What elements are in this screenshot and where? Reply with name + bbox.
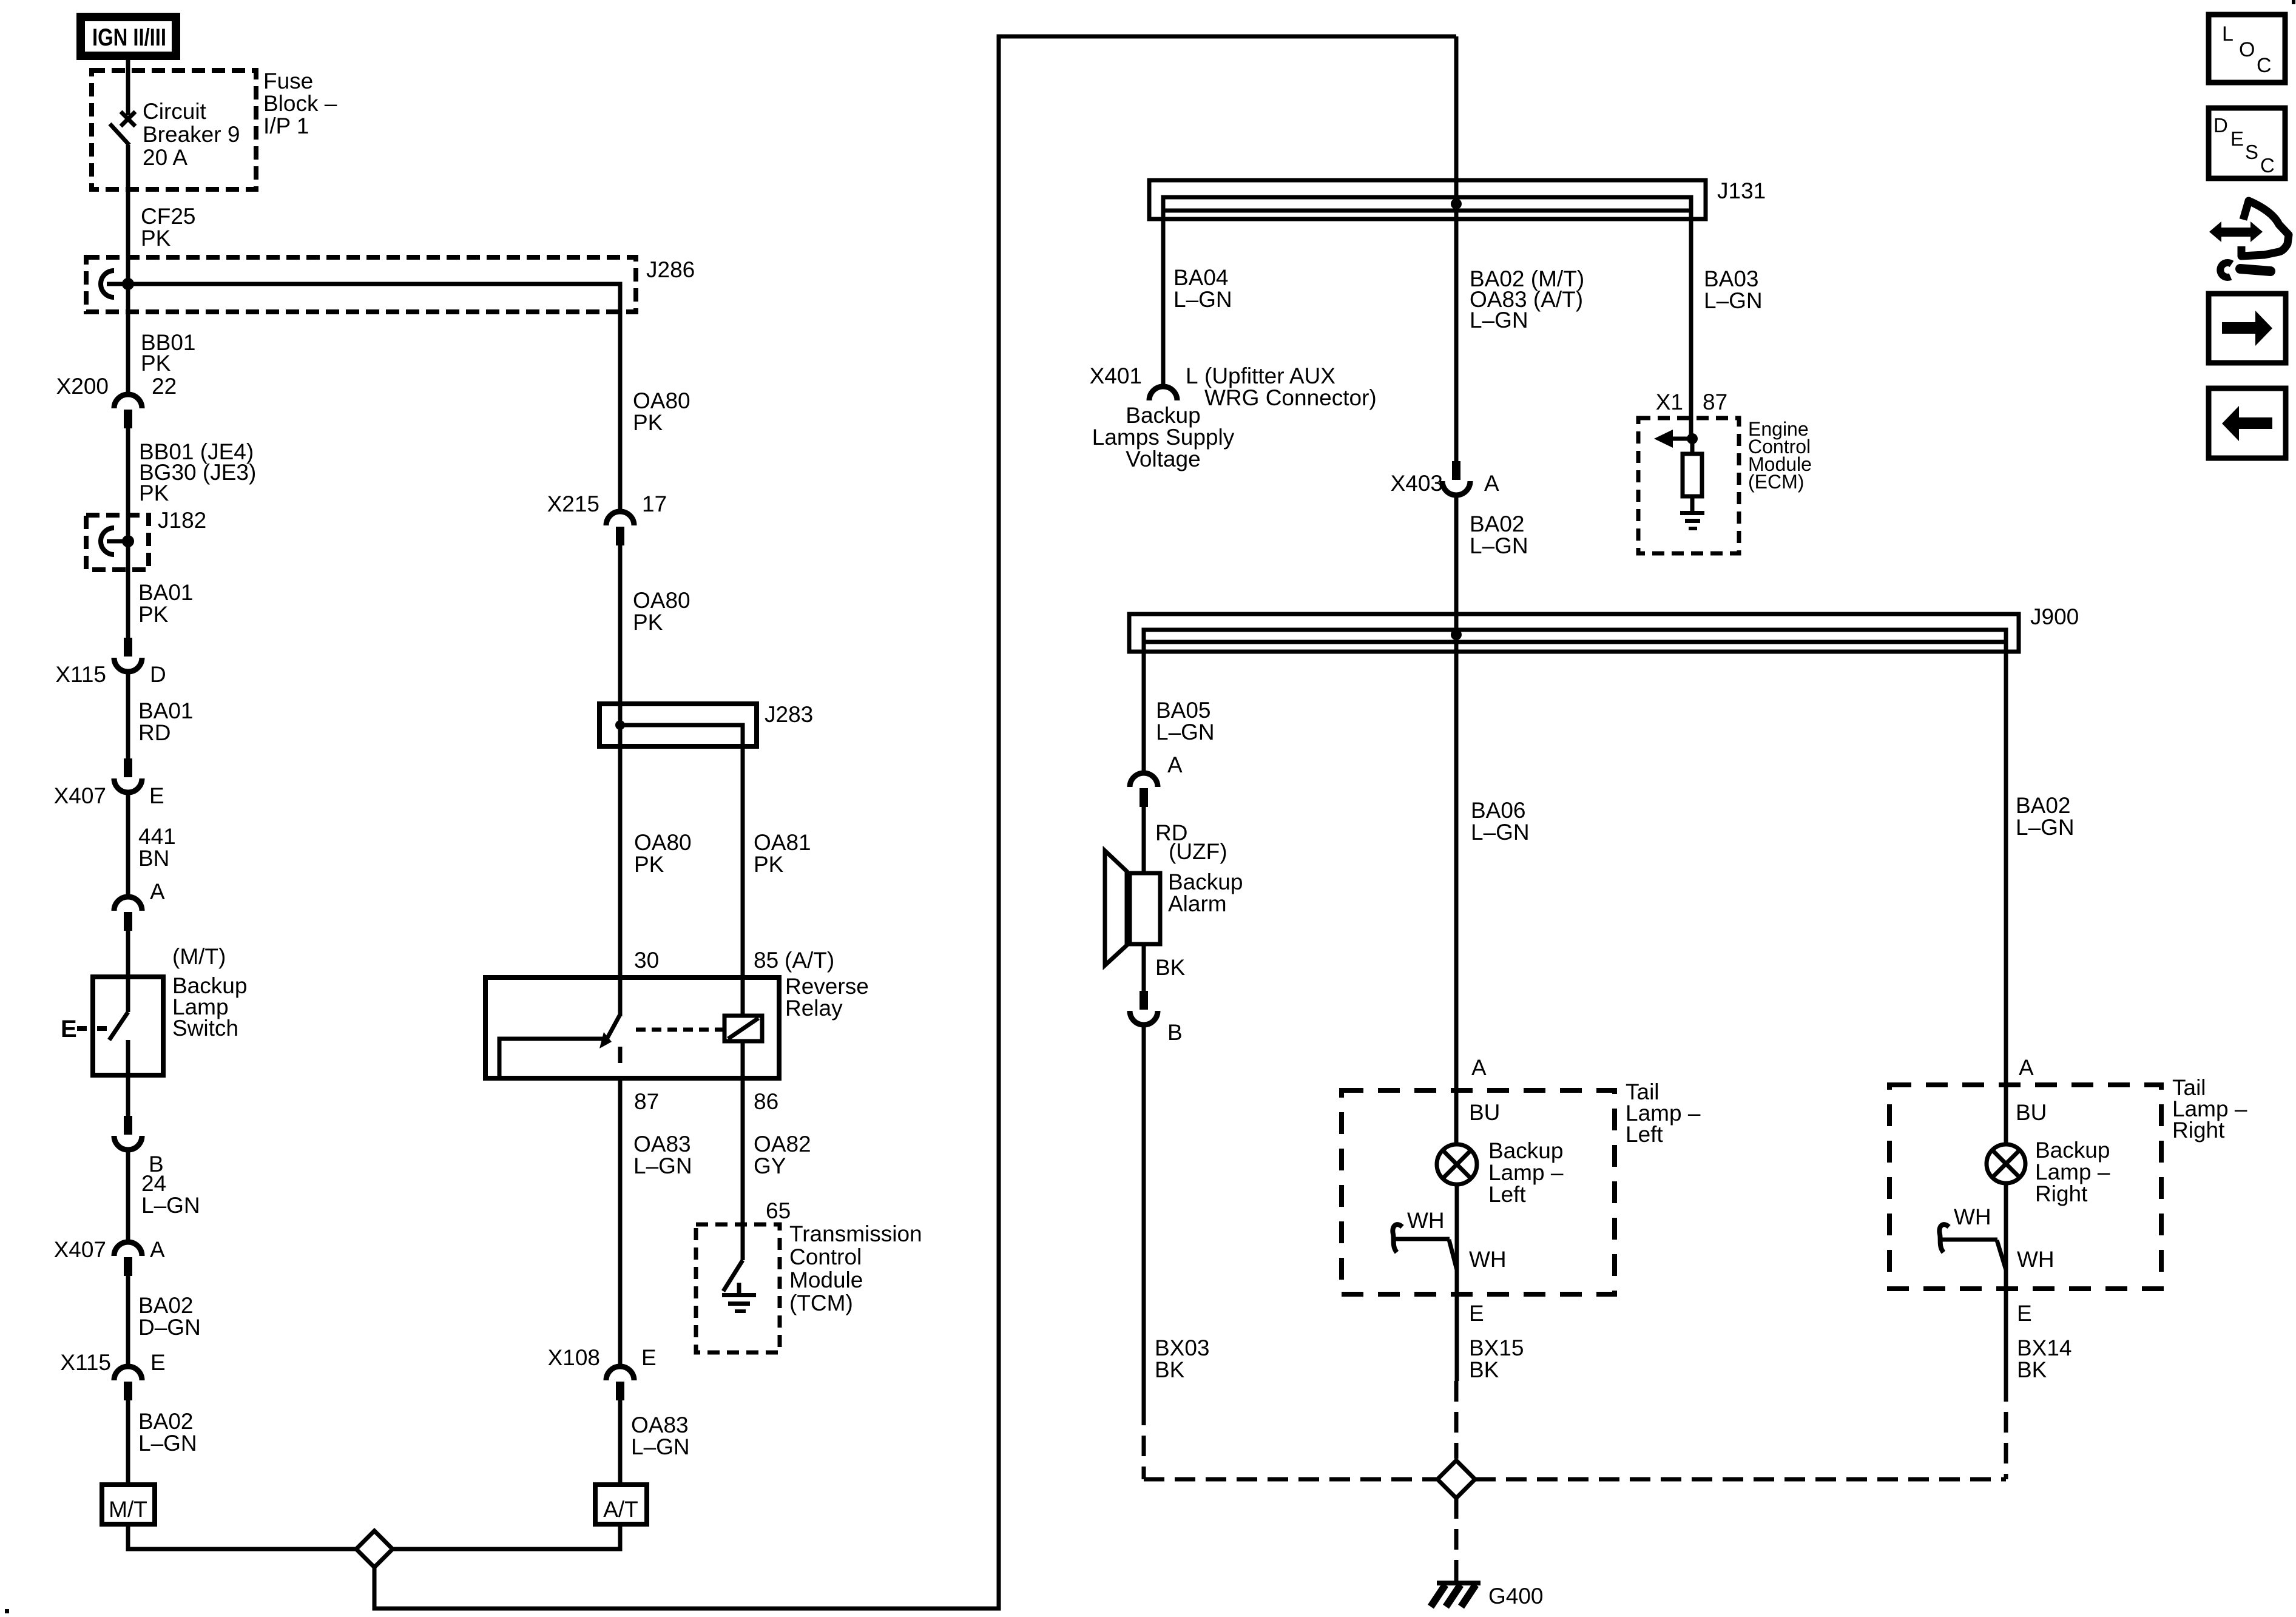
backup alarm speaker <box>1105 851 1160 965</box>
svg-text:Lamp –: Lamp – <box>2035 1160 2110 1184</box>
svg-text:J900: J900 <box>2030 604 2079 629</box>
relay coil <box>724 1016 762 1041</box>
splice pack J131 bus bar <box>1163 197 1691 211</box>
connector X215 pin 17 <box>606 511 634 545</box>
icon arrow left box <box>2209 388 2286 458</box>
label pin L <box>1186 363 1198 388</box>
TCM dashed box <box>696 1224 780 1352</box>
label pin 85 (A/T) <box>754 948 834 973</box>
dashed wire BX15 to ground bus <box>1454 1381 1459 1459</box>
svg-text:OA81: OA81 <box>754 830 811 855</box>
label BK <box>1155 955 1186 980</box>
label X215 <box>547 491 599 516</box>
label pin E lower <box>150 1350 166 1375</box>
svg-text:D: D <box>150 662 166 687</box>
label OA83 L-GN relay <box>633 1132 692 1178</box>
label BA01 PK <box>138 580 194 627</box>
label J286 <box>646 257 695 282</box>
label X200 <box>56 374 109 399</box>
wire OA83 L-GN from pin 87 <box>618 1078 623 1366</box>
relay actuation dashed link <box>636 1028 723 1032</box>
label Transmission Control Module (TCM) <box>789 1221 922 1315</box>
svg-text:BA02: BA02 <box>138 1293 194 1318</box>
wire BA03 L-GN drop <box>1689 211 1693 439</box>
wire BA04 L-GN drop <box>1161 211 1166 387</box>
connector X401 pin L <box>1149 387 1177 400</box>
label (M/T) <box>172 944 226 969</box>
label pin A X403 <box>1484 471 1499 496</box>
svg-text:E: E <box>2017 1301 2032 1326</box>
ECM output arrow <box>1654 430 1692 448</box>
relay switch blade <box>599 1014 620 1048</box>
svg-text:L–GN: L–GN <box>1470 308 1528 333</box>
svg-text:(UZF): (UZF) <box>1169 839 1227 864</box>
label OA82 GY <box>754 1132 811 1178</box>
svg-text:RD: RD <box>138 720 171 745</box>
svg-text:BA02: BA02 <box>138 1409 194 1434</box>
label Backup Lamp Switch <box>172 973 247 1041</box>
svg-text:E: E <box>641 1345 657 1370</box>
connector backup alarm pin B <box>1130 991 1158 1025</box>
svg-text:IGN II/III: IGN II/III <box>92 24 166 51</box>
TCM internal switch <box>723 1224 743 1291</box>
wire OA82 GY from pin 86 <box>741 1041 745 1224</box>
svg-text:PK: PK <box>633 410 663 435</box>
svg-text:Lamp –: Lamp – <box>1488 1160 1564 1185</box>
svg-text:PK: PK <box>139 481 169 505</box>
svg-text:Backup: Backup <box>2035 1138 2110 1163</box>
wire M/T to splice diamond <box>128 1524 356 1549</box>
label OA80 PK lower <box>633 588 690 635</box>
wire BB01 (JE4) BG30 (JE3) PK <box>126 428 130 638</box>
svg-text:BA01: BA01 <box>138 580 194 605</box>
label BA02 M/T OA83 A/T L-GN <box>1470 266 1584 333</box>
svg-text:B: B <box>1167 1020 1183 1045</box>
svg-text:(Upfitter AUX: (Upfitter AUX <box>1204 363 1335 388</box>
circuit breaker CB9 element <box>110 112 135 145</box>
svg-text:GY: GY <box>754 1153 786 1178</box>
svg-text:Relay: Relay <box>785 996 843 1021</box>
svg-text:L: L <box>2222 22 2234 46</box>
reverse relay box <box>485 977 779 1078</box>
node J286 junction dot <box>122 278 134 290</box>
connector X407 pin E <box>114 758 142 792</box>
splice box J286 <box>86 257 636 312</box>
WH splice hook left <box>1393 1224 1402 1252</box>
svg-text:X407: X407 <box>54 783 106 808</box>
svg-text:G400: G400 <box>1488 1584 1544 1609</box>
svg-text:L–GN: L–GN <box>1173 287 1232 312</box>
wire J283 elbow to coil <box>620 725 743 1016</box>
label Backup Lamp - Left <box>1488 1138 1564 1207</box>
label pin E X108 <box>641 1345 657 1370</box>
svg-text:WH: WH <box>1407 1208 1445 1233</box>
svg-text:Right: Right <box>2172 1118 2225 1143</box>
label Backup Lamps Supply Voltage <box>1092 403 1235 471</box>
power feed tag IGN II/III <box>81 17 176 56</box>
WH splice hook right <box>1939 1224 1949 1252</box>
wire 441 BN <box>126 792 130 897</box>
label BA04 L-GN <box>1173 265 1232 312</box>
svg-text:Backup: Backup <box>1168 869 1243 894</box>
label Backup Lamp - Right <box>2035 1138 2110 1206</box>
dashed ground bus left <box>1144 1477 1437 1482</box>
svg-text:Lamps Supply: Lamps Supply <box>1092 425 1235 450</box>
svg-text:L: L <box>1186 363 1198 388</box>
wire BA02 L-GN left <box>126 1400 130 1485</box>
svg-text:87: 87 <box>1703 390 1727 414</box>
connector X403 pin A <box>1442 461 1470 495</box>
svg-text:A: A <box>150 879 165 904</box>
label pin A switch <box>150 879 165 904</box>
svg-text:PK: PK <box>633 610 663 635</box>
svg-text:BA01: BA01 <box>138 698 194 723</box>
circuit breaker label <box>143 99 240 170</box>
svg-text:E: E <box>149 783 164 808</box>
splice hook J286 <box>101 271 114 297</box>
label pin E upper <box>149 783 164 808</box>
ECM ground <box>1680 511 1704 530</box>
svg-text:86: 86 <box>754 1089 778 1114</box>
WH splice stub left <box>1396 1239 1457 1270</box>
svg-text:Alarm: Alarm <box>1168 891 1227 916</box>
svg-text:441: 441 <box>138 824 176 849</box>
svg-text:20 A: 20 A <box>143 145 187 170</box>
svg-text:Transmission: Transmission <box>789 1221 922 1246</box>
svg-text:L–GN: L–GN <box>633 1153 692 1178</box>
svg-text:X1: X1 <box>1656 390 1683 414</box>
svg-text:D–GN: D–GN <box>138 1315 201 1340</box>
svg-text:OA83: OA83 <box>633 1132 691 1156</box>
label BA03 L-GN <box>1704 266 1763 313</box>
svg-text:J283: J283 <box>765 702 813 727</box>
wire OA83 L-GN to A/T <box>618 1400 623 1485</box>
svg-text:OA80: OA80 <box>633 588 690 613</box>
M/T tag box <box>102 1485 155 1524</box>
connector X115 pin D <box>114 638 142 672</box>
label X1 <box>1656 390 1683 414</box>
label pin A lamp left <box>1471 1055 1487 1080</box>
wire BA02 L-GN to J900 <box>1454 495 1459 1144</box>
svg-text:Breaker 9: Breaker 9 <box>143 122 240 147</box>
svg-text:65: 65 <box>766 1198 791 1223</box>
splice pack J900 outer box <box>1129 614 2019 652</box>
svg-text:A: A <box>150 1237 165 1262</box>
label X407 upper <box>54 783 106 808</box>
wire splice diamond to A/T <box>393 1524 620 1549</box>
connector below switch pin B <box>114 1116 142 1150</box>
svg-text:Left: Left <box>1626 1122 1663 1147</box>
svg-text:30: 30 <box>634 948 659 973</box>
relay fixed contact stub <box>618 1047 623 1063</box>
ground G400 symbol <box>1431 1573 1481 1607</box>
svg-text:Module: Module <box>789 1268 863 1292</box>
svg-text:Right: Right <box>2035 1181 2088 1206</box>
svg-text:BN: BN <box>138 846 169 871</box>
svg-text:J286: J286 <box>646 257 695 282</box>
svg-text:I/P 1: I/P 1 <box>263 113 309 138</box>
svg-text:17: 17 <box>642 491 667 516</box>
dashed ground bus right <box>1475 1477 2006 1482</box>
svg-text:(M/T): (M/T) <box>172 944 226 969</box>
TCM ground <box>722 1283 756 1313</box>
svg-text:BA03: BA03 <box>1704 266 1759 291</box>
splice hook J182 <box>101 528 128 555</box>
svg-text:Block –: Block – <box>263 91 337 116</box>
svg-text:A: A <box>2019 1055 2034 1080</box>
svg-text:Backup: Backup <box>1126 403 1200 428</box>
label RD <box>1155 820 1187 845</box>
svg-text:OA83: OA83 <box>631 1413 689 1437</box>
connector A above switch <box>114 897 142 931</box>
label BA02 D-GN <box>138 1293 201 1340</box>
label pin 87 ECM <box>1703 390 1727 414</box>
splice box J283 <box>599 704 757 746</box>
label pin 22 <box>152 374 177 399</box>
label BB01 (JE4) BG30 (JE3) PK <box>139 439 256 505</box>
svg-text:BX03: BX03 <box>1155 1335 1210 1360</box>
fuse block dashed box <box>92 70 256 189</box>
label Tail Lamp - Right <box>2172 1075 2247 1143</box>
label pin 30 <box>634 948 659 973</box>
label BA01 RD <box>138 698 194 745</box>
label pin 65 <box>766 1198 791 1223</box>
svg-text:PK: PK <box>634 852 664 877</box>
label pin D <box>150 662 166 687</box>
dashed wire diamond to G400 <box>1454 1498 1459 1576</box>
svg-text:J131: J131 <box>1717 178 1766 203</box>
svg-text:(ECM): (ECM) <box>1748 471 1804 493</box>
svg-text:Backup: Backup <box>1488 1138 1563 1163</box>
svg-text:PK: PK <box>141 226 171 251</box>
svg-text:WRG Connector): WRG Connector) <box>1204 385 1377 410</box>
svg-text:BK: BK <box>2017 1357 2047 1382</box>
switch actuator E linkage <box>61 1016 107 1042</box>
label WH splice right <box>1954 1204 1991 1229</box>
label pin 87 <box>634 1089 659 1114</box>
icon LOC box <box>2209 15 2285 83</box>
wire BA01 RD <box>126 672 130 758</box>
label OA80 PK at relay <box>634 830 692 877</box>
svg-text:BU: BU <box>2016 1100 2047 1125</box>
svg-text:WH: WH <box>2017 1247 2055 1272</box>
backup lamp left symbol <box>1437 1144 1477 1184</box>
backup lamp switch box <box>93 977 163 1075</box>
icon DESC box <box>2209 108 2285 178</box>
svg-text:PK: PK <box>138 602 169 627</box>
svg-text:PK: PK <box>141 351 171 376</box>
svg-text:D: D <box>2213 114 2228 137</box>
dashed wire BX03 to ground bus <box>1142 1405 1146 1479</box>
label Upfitter AUX WRG Connector <box>1204 363 1377 410</box>
label Engine Control Module (ECM) <box>1748 418 1812 493</box>
label pin B alarm <box>1167 1020 1183 1045</box>
label pin A alarm <box>1167 752 1183 777</box>
svg-text:X115: X115 <box>55 662 106 687</box>
label 441 BN <box>138 824 176 871</box>
connector backup alarm pin A <box>1130 773 1158 807</box>
wire CF25 from IGN II/III to circuit breaker <box>126 60 130 115</box>
label pin E lamp right <box>2017 1301 2032 1326</box>
A/T tag box <box>595 1485 647 1524</box>
splice pack J131 outer box <box>1149 180 1706 219</box>
label J131 <box>1717 178 1766 203</box>
svg-text:X401: X401 <box>1090 363 1142 388</box>
svg-text:WH: WH <box>1954 1204 1991 1229</box>
svg-text:Voltage: Voltage <box>1126 447 1200 471</box>
svg-text:E: E <box>2230 127 2244 150</box>
svg-text:E: E <box>61 1016 77 1042</box>
wire below switch <box>126 1075 130 1116</box>
wire RD to alarm <box>1142 807 1146 873</box>
wire BA05 L-GN drop <box>1142 642 1146 773</box>
ECM dashed box <box>1638 418 1739 553</box>
label BA02 L-GN right <box>2016 793 2075 840</box>
svg-text:BA06: BA06 <box>1471 798 1526 823</box>
svg-text:L–GN: L–GN <box>631 1434 690 1459</box>
wire below lamp right <box>2004 1183 2008 1381</box>
connector X108 pin E <box>606 1366 634 1400</box>
wire OA80 PK to J283 <box>618 545 623 1016</box>
svg-text:BA02: BA02 <box>1470 511 1525 536</box>
label X401 <box>1090 363 1142 388</box>
svg-text:CF25: CF25 <box>141 204 195 229</box>
wire BA02 D-GN <box>126 1276 130 1366</box>
svg-text:A/T: A/T <box>603 1497 638 1522</box>
wire BX03 BK <box>1142 1025 1146 1405</box>
svg-text:BA04: BA04 <box>1173 265 1229 290</box>
svg-text:X108: X108 <box>548 1345 600 1370</box>
svg-text:L–GN: L–GN <box>1704 288 1763 313</box>
fuse block label <box>263 69 337 138</box>
icon jump with wrench <box>2209 201 2289 277</box>
splice box J182 <box>86 515 149 570</box>
label BX15 BK <box>1469 1335 1524 1382</box>
svg-text:L–GN: L–GN <box>1156 720 1215 744</box>
svg-text:X215: X215 <box>547 491 599 516</box>
wire into backup lamp switch <box>126 931 130 977</box>
label WH right of wire right <box>2017 1247 2055 1272</box>
svg-text:WH: WH <box>1469 1247 1507 1272</box>
svg-text:24: 24 <box>141 1171 166 1196</box>
relay internal link <box>499 1039 609 1076</box>
label OA80 PK upper <box>633 388 690 435</box>
label CF25 PK <box>141 204 195 251</box>
wire BK below alarm <box>1142 944 1146 991</box>
label X115 upper <box>55 662 106 687</box>
svg-text:(A/T): (A/T) <box>785 948 834 973</box>
icon arrow right box <box>2209 294 2286 363</box>
wire bottom run up to top bus <box>374 36 1456 1609</box>
svg-text:S: S <box>2245 141 2258 163</box>
label pin 86 <box>754 1089 778 1114</box>
label WH splice left <box>1407 1208 1445 1233</box>
label Tail Lamp - Left <box>1626 1079 1701 1147</box>
connector X115 pin E <box>114 1366 142 1400</box>
svg-text:BK: BK <box>1469 1357 1499 1382</box>
svg-text:E: E <box>150 1350 166 1375</box>
svg-text:BA02: BA02 <box>2016 793 2071 818</box>
wire BB01 label <box>141 330 196 376</box>
svg-text:X200: X200 <box>56 374 109 399</box>
connector X407 pin A <box>114 1242 142 1276</box>
svg-text:Fuse: Fuse <box>263 69 313 93</box>
svg-text:BK: BK <box>1155 1357 1185 1382</box>
label BX14 BK <box>2017 1335 2072 1382</box>
tail lamp right dashed box <box>1889 1085 2161 1289</box>
node J900 junction dot <box>1451 629 1462 640</box>
svg-text:Switch: Switch <box>172 1016 238 1041</box>
label (UZF) <box>1169 839 1227 864</box>
label Reverse Relay <box>785 974 869 1021</box>
svg-text:BX15: BX15 <box>1469 1335 1524 1360</box>
svg-text:L–GN: L–GN <box>1471 820 1530 845</box>
node J182 junction dot <box>122 535 134 547</box>
label OA83 L-GN lower <box>631 1413 690 1459</box>
wire 24 L-GN <box>126 1150 130 1242</box>
label BA02 L-GN left <box>138 1409 197 1456</box>
svg-text:L–GN: L–GN <box>1470 533 1528 558</box>
label BA05 L-GN <box>1156 698 1215 744</box>
wire main vertical through J131 <box>1454 36 1459 461</box>
svg-text:BU: BU <box>1469 1100 1500 1125</box>
label J900 <box>2030 604 2079 629</box>
backup lamp right symbol <box>1987 1144 2025 1183</box>
tail lamp left dashed box <box>1342 1090 1615 1294</box>
svg-text:OA82: OA82 <box>754 1132 811 1156</box>
svg-text:L–GN: L–GN <box>138 1431 197 1456</box>
node J131 junction dot <box>1451 198 1462 209</box>
splice pack J900 bus bar <box>1144 630 2006 642</box>
svg-text:L–GN: L–GN <box>2016 815 2075 840</box>
label pin B <box>149 1152 164 1176</box>
svg-text:OA80: OA80 <box>634 830 692 855</box>
splice diamond ground bus <box>1437 1460 1475 1498</box>
label 24 L-GN <box>141 1171 200 1218</box>
dashed wire BX14 to ground bus <box>2004 1381 2008 1479</box>
svg-text:E: E <box>1469 1301 1484 1326</box>
svg-text:87: 87 <box>634 1089 659 1114</box>
label BU left <box>1469 1100 1500 1125</box>
svg-text:22: 22 <box>152 374 177 399</box>
svg-text:X115: X115 <box>60 1350 111 1375</box>
label X108 <box>548 1345 600 1370</box>
svg-text:C: C <box>2257 54 2272 77</box>
label BU right <box>2016 1100 2047 1125</box>
svg-text:L–GN: L–GN <box>141 1193 200 1218</box>
svg-text:A: A <box>1471 1055 1487 1080</box>
svg-text:OA80: OA80 <box>633 388 690 413</box>
svg-text:C: C <box>2260 154 2275 177</box>
label pin E lamp left <box>1469 1301 1484 1326</box>
label WH right of wire left <box>1469 1247 1507 1272</box>
svg-text:Circuit: Circuit <box>143 99 207 124</box>
connector X200 pin 22 <box>114 394 142 428</box>
backup lamp switch contacts <box>109 977 128 1075</box>
node J283 junction dot <box>615 720 625 730</box>
label J283 <box>765 702 813 727</box>
svg-text:J182: J182 <box>158 508 206 533</box>
svg-text:BA05: BA05 <box>1156 698 1211 723</box>
label BA06 L-GN <box>1471 798 1530 845</box>
svg-text:(TCM): (TCM) <box>789 1291 853 1315</box>
svg-text:A: A <box>1167 752 1183 777</box>
svg-text:O: O <box>2239 38 2255 61</box>
svg-text:A: A <box>1484 471 1499 496</box>
label BX03 BK <box>1155 1335 1210 1382</box>
label pin 17 <box>642 491 667 516</box>
label X115 lower <box>60 1350 111 1375</box>
